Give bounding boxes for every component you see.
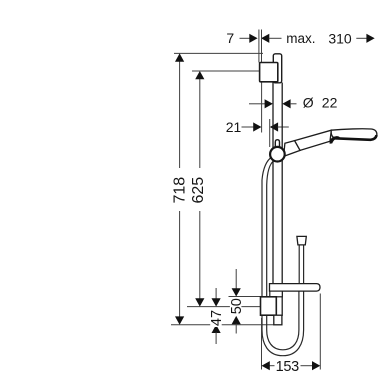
shower head body (331, 129, 377, 140)
shower head joint curl (330, 136, 340, 144)
wire: extension line 718 bottom / 47 bottom (y=324.7) (171, 324, 274, 326)
dimension 7 tail and arrow right (240, 37, 251, 39)
svg-text:7: 7 (226, 30, 234, 46)
top bracket knob (260, 63, 278, 82)
hose conical nut (297, 236, 306, 245)
hose outer edge (262, 157, 304, 356)
rail top piece (273, 54, 281, 83)
wire: extension line 625 bottom / 47 top (y=306.6) (187, 306, 261, 308)
svg-text:50: 50 (229, 298, 245, 314)
shower handle rod (295, 130, 332, 150)
label 47 (209, 309, 225, 327)
dimension 718 arrow up (175, 53, 184, 61)
dimension 47 upper tail (215, 288, 217, 299)
dimension 50 lower tail (235, 324, 237, 334)
dimension max310 left arrow (261, 34, 269, 43)
dimension 50 arrow up (232, 316, 241, 324)
dimension 47 arrow up (212, 325, 221, 333)
wire: extension line top (718 end, y=52.8) (174, 52, 263, 54)
svg-text:718: 718 (171, 177, 188, 204)
svg-text:625: 625 (190, 177, 207, 204)
dimension 47 arrow down (212, 298, 221, 306)
dimension 718 vertical line (179, 61, 181, 317)
rail bottom end piece (274, 315, 282, 325)
dimension max310 right arrow (356, 37, 367, 39)
wire: extension line 625 top (y=69.8) (192, 70, 260, 72)
wall reference line below bracket (261, 82, 263, 133)
dimension 153 line left segment (270, 365, 275, 367)
shower head spray face (thick bottom band) (335, 135, 377, 140)
dimension 625 vertical line (199, 79, 201, 299)
dimension 21 right arrow (270, 122, 278, 131)
svg-text:22: 22 (322, 95, 338, 111)
dimension 153 line right segment (301, 365, 313, 367)
dimension diameter 22: left tail and arrow (249, 103, 265, 105)
bottom bracket knob (261, 297, 277, 315)
dimension 625 arrow up (195, 71, 204, 79)
dimension diameter 22: right arrow and tail (282, 99, 290, 108)
hose inner edge (267, 161, 299, 350)
dimension 50 arrow down (232, 288, 241, 296)
hose end stem above dish (298, 245, 300, 284)
dimension 153 arrow left (262, 361, 270, 370)
svg-text:max.: max. (286, 31, 315, 46)
dimension 153 arrow right (312, 361, 320, 370)
dimension 153 extension line left (261, 318, 263, 370)
dimension 47 lower tail (215, 332, 217, 344)
holder knob circle (270, 147, 285, 162)
svg-text:21: 21 (226, 119, 242, 135)
svg-text:47: 47 (209, 310, 225, 326)
dimension 718 arrow down (175, 316, 184, 324)
svg-text:153: 153 (276, 359, 300, 375)
svg-text:Ø: Ø (303, 95, 314, 111)
holder pin (275, 140, 279, 148)
wall anchor thin line A (258, 30, 260, 63)
dimension 21 left arrow (242, 126, 254, 128)
shower handle cone (284, 141, 301, 157)
dimension 50 upper tail (235, 269, 237, 289)
rail (wall bar) (272, 83, 274, 285)
holder front extension line (269, 119, 271, 147)
dimension 153 extension line right (319, 294, 321, 370)
wire: extension line 50 top (y=296.5) (229, 296, 261, 298)
wall anchor thin line B (261, 30, 263, 63)
dish mount step (270, 291, 283, 297)
label 50 (white backing clears lines behind) (229, 298, 245, 315)
dimension 625 arrow down (195, 298, 204, 306)
soap dish (270, 284, 321, 292)
svg-text:310: 310 (328, 31, 352, 47)
